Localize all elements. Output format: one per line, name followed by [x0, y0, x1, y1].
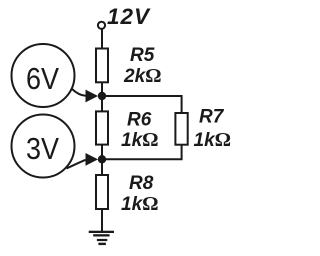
svg-text:2kΩ: 2kΩ — [123, 65, 162, 87]
svg-text:R6: R6 — [127, 110, 152, 131]
svg-text:R5: R5 — [130, 45, 155, 66]
svg-text:1kΩ: 1kΩ — [121, 193, 159, 215]
svg-text:R7: R7 — [199, 107, 225, 128]
svg-text:3V: 3V — [26, 131, 59, 166]
svg-text:1kΩ: 1kΩ — [121, 129, 159, 151]
svg-text:12V: 12V — [107, 4, 151, 29]
svg-text:6V: 6V — [26, 61, 59, 96]
svg-text:R8: R8 — [129, 173, 154, 194]
svg-text:1kΩ: 1kΩ — [194, 129, 232, 151]
